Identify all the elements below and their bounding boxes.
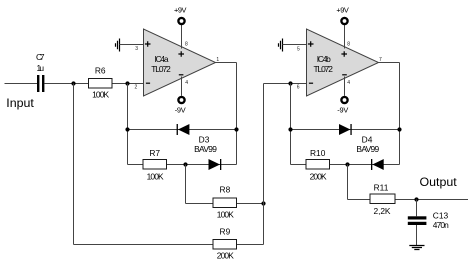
wire D4 row — [291, 129, 400, 131]
minus marker input IC4b — [309, 82, 313, 84]
svg-text:-9V: -9V — [337, 105, 348, 114]
svg-text:R8: R8 — [220, 185, 231, 195]
svg-text:IC4a: IC4a — [155, 54, 169, 64]
svg-text:100K: 100K — [147, 172, 164, 182]
svg-text:+9V: +9V — [336, 5, 349, 14]
svg-text:R6: R6 — [95, 65, 106, 75]
node D3 right — [234, 127, 238, 131]
svg-text:100K: 100K — [92, 90, 109, 100]
svg-text:R7: R7 — [149, 148, 160, 158]
diode D3 second half (BAV99) — [209, 159, 222, 170]
svg-text:470n: 470n — [433, 220, 449, 230]
wire node down to R7 row — [127, 84, 129, 165]
op-amp IC4a — [144, 29, 216, 96]
node output to C13 — [414, 197, 418, 201]
ground at pin 3 — [116, 39, 120, 52]
svg-text:3: 3 — [135, 46, 138, 52]
plus marker input IC4b — [308, 41, 314, 47]
wire R11 row to output — [348, 199, 469, 201]
wire C13 top — [416, 200, 418, 217]
svg-text:2: 2 — [135, 84, 138, 90]
svg-text:2,2K: 2,2K — [374, 206, 391, 216]
svg-text:4: 4 — [347, 80, 350, 86]
wire pin 4 IC4a — [181, 77, 183, 96]
wire D3 row — [128, 129, 237, 131]
svg-text:5: 5 — [297, 46, 300, 52]
wire output IC4b — [379, 62, 400, 64]
node D3 left — [125, 127, 129, 131]
wire junction down to R11 row — [347, 165, 349, 200]
ground at C13 — [409, 246, 424, 250]
node D4 right — [397, 127, 401, 131]
resistor R10 — [306, 148, 330, 182]
supply -9V IC4a — [175, 97, 186, 115]
node inverting input IC4a — [125, 81, 129, 85]
svg-text:D3: D3 — [199, 135, 210, 145]
svg-text:R10: R10 — [310, 148, 326, 158]
svg-text:200K: 200K — [310, 172, 327, 182]
plus marker input IC4a — [145, 41, 151, 47]
node feedback IC4b — [288, 81, 292, 85]
supply +9V IC4a — [174, 5, 187, 24]
svg-text:8: 8 — [347, 41, 350, 47]
wire pin 3 — [120, 44, 144, 46]
wire pin 5 — [283, 44, 307, 46]
supply +9V IC4b — [336, 5, 349, 24]
wire C13 bottom — [416, 225, 418, 246]
wire output node 2 vertical — [399, 63, 401, 165]
diode D3 — [177, 124, 218, 154]
node D4 left — [288, 127, 292, 131]
svg-text:IC4b: IC4b — [317, 54, 331, 64]
ground at pin 5 — [279, 39, 283, 52]
svg-text:4: 4 — [185, 80, 188, 86]
svg-text:TL072: TL072 — [151, 64, 171, 74]
wire R7 row — [128, 164, 237, 166]
node input junction — [71, 81, 75, 85]
plus marker power IC4a — [178, 51, 184, 57]
op-amp IC4b — [307, 29, 379, 96]
resistor R11 — [370, 183, 395, 217]
resistor R6 — [89, 65, 113, 99]
svg-text:8: 8 — [185, 41, 188, 47]
svg-text:TL072: TL072 — [313, 64, 333, 74]
svg-text:R11: R11 — [374, 183, 389, 193]
wire output node 1 vertical — [236, 63, 238, 165]
wire pin 8 IC4b — [344, 25, 346, 49]
diode D4 — [339, 124, 380, 154]
wire output IC4a — [216, 62, 237, 64]
svg-text:Output: Output — [420, 175, 458, 189]
wire pin 6 IC4b — [264, 83, 307, 85]
wire summing vertical to pin 6 — [263, 84, 265, 245]
svg-text:C7: C7 — [36, 52, 45, 62]
svg-text:7: 7 — [379, 57, 382, 63]
wire junction down to R8 row — [185, 165, 187, 204]
wire R10 row — [291, 164, 400, 166]
resistor R7 — [143, 148, 167, 182]
supply -9V IC4b — [337, 97, 348, 115]
svg-text:R9: R9 — [220, 227, 231, 237]
svg-text:-9V: -9V — [175, 105, 186, 114]
capacitor C13 — [408, 211, 449, 230]
resistor R8 — [213, 185, 237, 220]
wire input left segment — [5, 83, 38, 85]
node R8 to summing vertical — [261, 201, 265, 205]
minus marker input IC4a — [146, 82, 150, 84]
svg-text:+9V: +9V — [174, 5, 187, 14]
minus marker power IC4b — [342, 74, 347, 76]
wire pin 4 IC4b — [344, 77, 346, 96]
svg-text:BAV99: BAV99 — [194, 144, 217, 154]
svg-text:D4: D4 — [362, 135, 373, 145]
plus marker power IC4b — [341, 51, 347, 57]
node R7 diode junction — [183, 162, 187, 166]
svg-text:1: 1 — [216, 57, 219, 63]
minus marker power IC4a — [179, 74, 184, 76]
wire R8 row — [186, 203, 264, 205]
node R10 diode junction — [345, 162, 349, 166]
wire pin 8 IC4a — [181, 25, 183, 49]
svg-text:100K: 100K — [217, 210, 234, 220]
svg-text:Input: Input — [6, 96, 34, 110]
svg-text:200K: 200K — [217, 250, 234, 260]
wire input node down to R9 row — [73, 84, 75, 245]
wire input to R6 and op-amp pin 2 — [44, 83, 143, 85]
wire R9 row — [74, 244, 264, 246]
svg-text:6: 6 — [297, 85, 300, 91]
svg-text:BAV99: BAV99 — [356, 144, 379, 154]
wire node down to R10 row — [290, 84, 292, 165]
svg-text:1u: 1u — [37, 63, 45, 73]
capacitor C7 — [36, 52, 45, 92]
diode D4 second half (BAV99) — [371, 159, 384, 170]
resistor R9 — [213, 227, 237, 261]
